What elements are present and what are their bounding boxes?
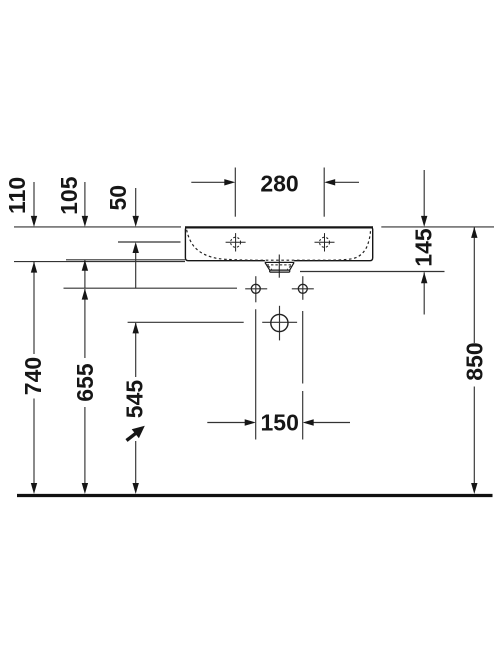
small fixing hole right bbox=[298, 284, 307, 293]
dimension 280 arrow left shaft bbox=[191, 181, 226, 183]
dimension 50 top shaft bbox=[135, 188, 137, 218]
dimension 280 extension line right bbox=[323, 168, 325, 217]
arrow up 105 at 105 line bbox=[82, 260, 88, 271]
dimension 105 top shaft bbox=[84, 182, 86, 218]
arrow down 850 at floor bbox=[471, 483, 477, 494]
arrow down 545 at floor bbox=[133, 483, 139, 494]
dimension 655 shaft lower bbox=[84, 407, 86, 486]
655-level reference line bbox=[64, 287, 238, 289]
small circle left crosshair horizontal bbox=[245, 288, 267, 290]
small fixing hole left bbox=[251, 284, 260, 293]
tap hole left crosshair bbox=[226, 233, 246, 251]
arrow up 545 below its line bbox=[133, 322, 139, 333]
dimension 150 extension line left bbox=[255, 309, 257, 439]
rim reference line right bbox=[381, 226, 494, 228]
tap hole right dashed circle bbox=[320, 237, 330, 247]
rim reference line left (top level 850) bbox=[14, 226, 181, 228]
110-level / 740-level reference line bbox=[14, 261, 185, 263]
dimension 655 shaft upper bbox=[84, 289, 86, 358]
arrow left 150 right bbox=[303, 419, 314, 425]
tap hole right crosshair bbox=[315, 233, 335, 251]
svg-text:280: 280 bbox=[260, 170, 298, 196]
arrow down 145 at rim line bbox=[421, 216, 427, 227]
small circle right crosshair horizontal bbox=[292, 288, 314, 290]
drain inner dashed lines bbox=[267, 265, 293, 270]
dimension 145 bottom tail shaft bbox=[423, 272, 425, 314]
arrow up 145 below its line bbox=[421, 272, 427, 283]
arrow down 740 at floor bbox=[31, 483, 37, 494]
small circle left crosshair vertical bbox=[255, 276, 257, 302]
arrow up 110 at 740 line bbox=[31, 262, 37, 273]
svg-text:150: 150 bbox=[261, 410, 299, 436]
dimension 50 tail shaft bbox=[135, 252, 137, 288]
arrow down 655 at floor bbox=[82, 483, 88, 494]
drain trapezoid outline bbox=[265, 262, 294, 272]
dimension 850 shaft upper bbox=[473, 228, 475, 344]
105-level reference line bbox=[66, 259, 185, 261]
washbasin body outline bbox=[185, 227, 373, 260]
dimension 280 arrow right shaft bbox=[333, 181, 359, 183]
dimension 150 arrow left shaft bbox=[207, 422, 246, 424]
drain centre line bbox=[278, 255, 280, 278]
svg-text:740: 740 bbox=[20, 357, 46, 395]
floor line bbox=[17, 494, 493, 497]
dimension 545 shaft lower bbox=[135, 441, 137, 486]
tap hole left dashed circle bbox=[231, 237, 241, 247]
svg-text:545: 545 bbox=[122, 380, 148, 419]
small circle right crosshair vertical bbox=[302, 276, 304, 300]
dimension 145 top shaft bbox=[423, 170, 425, 218]
overflow circle crosshair vertical bbox=[279, 306, 281, 341]
svg-text:850: 850 bbox=[462, 342, 488, 380]
svg-text:110: 110 bbox=[4, 177, 30, 214]
dimension 105/655 tail shaft bbox=[84, 260, 86, 288]
dimension 280 extension line left bbox=[234, 168, 236, 217]
svg-text:50: 50 bbox=[105, 185, 131, 211]
dimension 740 shaft upper bbox=[33, 262, 35, 354]
dimension 150 extension line right upper bbox=[302, 311, 304, 384]
dimension 545 shaft upper bbox=[135, 323, 137, 377]
tap-level reference line (50 below rim) bbox=[118, 241, 181, 243]
svg-text:145: 145 bbox=[410, 228, 436, 267]
145-level reference line bbox=[300, 271, 445, 273]
arrow down 50 at rim line bbox=[133, 216, 139, 227]
arrow up 850 at rim line bbox=[471, 227, 477, 238]
arrow up 655 below its line bbox=[82, 289, 88, 300]
arrow up 50 at tap line bbox=[133, 242, 139, 253]
overflow circle crosshair horizontal bbox=[262, 321, 297, 323]
545-level reference line bbox=[128, 321, 244, 323]
basin interior dashed curve bbox=[187, 230, 371, 260]
overflow hole circle bbox=[271, 314, 288, 331]
arrow down 110 at rim line bbox=[31, 216, 37, 227]
svg-text:105: 105 bbox=[56, 176, 82, 215]
washbasin rim top edge (thick) bbox=[185, 226, 373, 228]
arrowheads bbox=[31, 179, 478, 494]
svg-text:655: 655 bbox=[72, 363, 98, 402]
arrow left 280 right bbox=[324, 179, 335, 185]
arrow down 105 at rim line bbox=[82, 216, 88, 227]
arrow right 150 left bbox=[245, 419, 256, 425]
dimension 150 arrow right shaft bbox=[312, 422, 350, 424]
leader arrow NE near 545 bbox=[127, 426, 145, 441]
dimension 850 shaft lower bbox=[473, 387, 475, 487]
dimension 110 top shaft bbox=[33, 182, 35, 218]
dimension 150 extension line right lower bbox=[302, 391, 304, 440]
arrow right 280 left bbox=[224, 179, 235, 185]
dimension 740 shaft lower bbox=[33, 399, 35, 487]
